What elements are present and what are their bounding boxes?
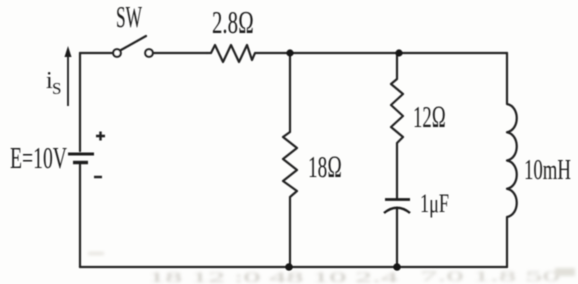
svg-text:7.0 1.8 50: 7.0 1.8 50 [420, 269, 560, 284]
svg-text:18Ω: 18Ω [308, 149, 342, 184]
svg-text:SW: SW [116, 0, 142, 34]
svg-text:2.8Ω: 2.8Ω [212, 4, 254, 40]
svg-text:12Ω: 12Ω [413, 99, 446, 134]
svg-text:10mH: 10mH [524, 154, 571, 186]
svg-text:E=10V: E=10V [10, 140, 67, 175]
svg-text:S: S [52, 79, 61, 98]
svg-text:1μF: 1μF [420, 189, 449, 218]
svg-text:18 12 :0 48 10 2.4: 18 12 :0 48 10 2.4 [148, 270, 399, 284]
